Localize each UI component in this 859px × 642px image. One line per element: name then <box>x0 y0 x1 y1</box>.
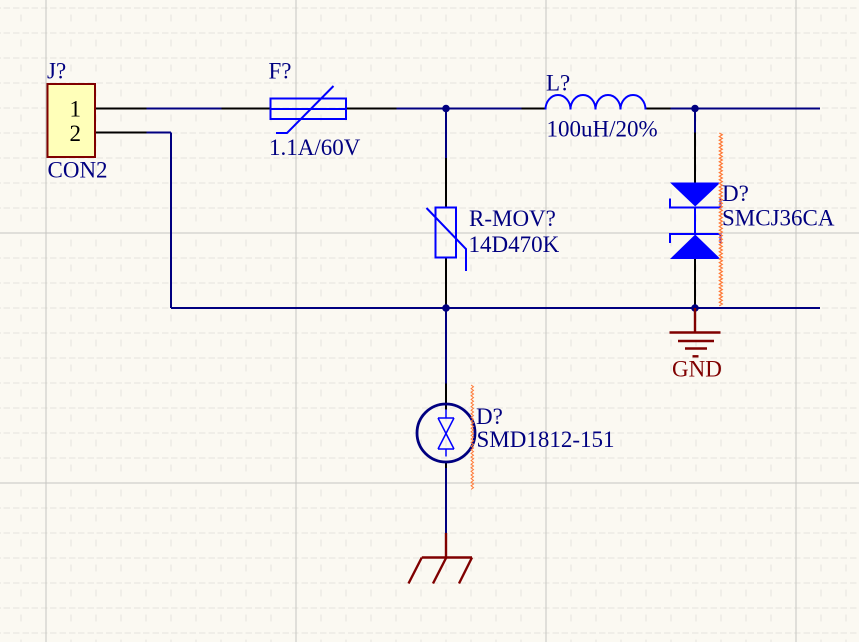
svg-text:L?: L? <box>546 71 570 96</box>
svg-text:F?: F? <box>269 59 292 84</box>
svg-text:R-MOV?: R-MOV? <box>469 206 556 231</box>
svg-text:D?: D? <box>722 181 749 206</box>
svg-text:14D470K: 14D470K <box>469 232 560 257</box>
svg-text:J?: J? <box>47 59 66 84</box>
svg-text:D?: D? <box>476 404 503 429</box>
svg-text:1: 1 <box>70 97 82 122</box>
svg-text:2: 2 <box>70 121 82 146</box>
svg-text:CON2: CON2 <box>48 158 108 183</box>
svg-text:100uH/20%: 100uH/20% <box>547 117 658 142</box>
svg-text:SMD1812-151: SMD1812-151 <box>477 427 615 452</box>
svg-text:GND: GND <box>672 357 722 382</box>
svg-text:SMCJ36CA: SMCJ36CA <box>722 206 835 231</box>
svg-text:1.1A/60V: 1.1A/60V <box>269 135 361 160</box>
